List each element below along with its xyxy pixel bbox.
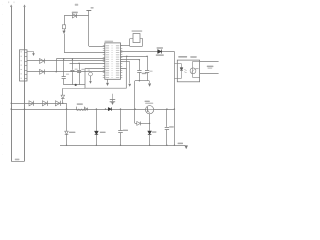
ground under IC [106,79,108,85]
diode D7 [105,101,115,111]
wire mains line L (left vertical) [10,5,12,162]
wire rail top [56,58,105,60]
diode D8 (black) [95,108,106,146]
wire VCC down to IC pin1 [89,16,105,47]
module box [85,69,126,89]
wire IC to resonator [121,45,130,47]
arrow on branch (down) [63,31,66,34]
inductor L1 [76,103,87,110]
wire W1 [27,60,105,62]
wire mini rail [135,80,149,82]
diode D1 (top) [72,12,78,18]
buffer diode on W1 [40,59,45,64]
wire cluster bottom rail [64,84,85,86]
zener ZD2 (black) [148,123,157,146]
wire supply vertical [174,52,175,147]
wire main rail [11,108,146,109]
capacitor C7 [145,56,153,81]
op-amp IC U1 [103,41,123,80]
label small mark [75,4,78,6]
wire mains bottom link [11,159,24,162]
wire base branch [134,81,136,124]
wire output lower [200,73,219,75]
wire branch down [64,16,66,25]
capacitor C9 [165,109,174,146]
wire W2 [27,71,105,73]
optocoupler U2 [174,56,199,82]
wire output upper [200,61,219,63]
capacitor C1 (small box) [62,25,65,31]
capacitor C6 [137,59,146,81]
capacitor C3 [70,58,77,85]
arrow symbol at J1 top [27,51,34,55]
capacitor C4 [77,63,84,85]
wire top horizontal [64,15,89,17]
wire bottom rail [60,145,185,147]
wire rail R2 [121,59,140,61]
label top-left ticks [8,1,14,3]
wire riser [56,59,57,73]
buffer diode on W2 [40,69,45,74]
diode D4 [55,101,60,106]
zener ZD1 [65,109,76,146]
page edge marks [2,4,4,162]
wire rail jog [66,103,68,109]
wire main rail right [154,108,175,109]
diode D6 (vertical) [61,88,85,103]
wire rail mid [70,63,105,65]
wire rail R1 [121,56,148,58]
wire rectifier rail [11,103,67,104]
crystal symbol (circle) in module box [88,70,93,84]
capacitor C2 [62,58,70,85]
diode D2 [29,101,34,106]
connector J1 [20,50,28,81]
capacitor C8 [118,108,128,146]
power VCC symbol [86,7,93,16]
label OUTPUT [207,66,214,69]
wire down-right 2 with arrow [129,62,131,87]
diode D9 (base) [137,121,151,125]
ground main (arrow) [178,143,188,149]
diode D5 [156,47,164,56]
ground right cluster [139,80,151,86]
wire mains line N (second vertical) [24,5,26,162]
wire down-right 1 [126,56,127,69]
wire rail R3 [121,61,130,63]
wire diode row [121,51,175,53]
transistor Q1 [145,101,154,124]
diode D3 [42,101,47,106]
junction blob [75,84,77,86]
wire branch continue [64,34,105,53]
ground center [110,94,115,105]
resonator X1 [130,30,143,46]
